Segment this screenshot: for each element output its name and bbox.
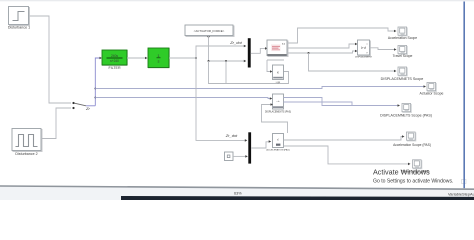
wire constant to mux2 [233,155,248,158]
scope DISPLACEMENTS Scope [381,67,424,81]
displacements pas block [265,94,291,114]
constant block [225,152,234,161]
scope DISPLACEMENTS Scope (PAS) [380,104,432,118]
wire mux2 to passive plant [251,140,271,148]
watermark Activate Windows [373,167,466,184]
svg-text:Travel Scope (PAS): Travel Scope (PAS) [401,170,430,174]
manual switch [72,102,95,111]
svg-text:DISPLACEMENT: DISPLACEMENT [355,56,373,59]
top window edge line [0,0,474,1]
mux2 (vertical bar) [248,132,251,163]
displacements pas block outputs [284,98,401,107]
status bar [0,185,474,200]
controller block below plant [273,65,284,84]
svg-text:Zr: Zr [85,106,90,111]
svg-text:LQR: LQR [276,82,281,84]
window frame blue right edge [463,2,465,189]
passive plant block [266,134,289,152]
scope Actuator Scope [420,83,444,96]
displacements pas block input 2 path [262,103,288,133]
transfer fcn block FILTER [102,50,127,70]
plant output 2 to subtract in1 [287,43,358,48]
svg-text:Zr_dot: Zr_dot [225,133,238,138]
svg-text:<ACTUATOR_FORCE>: <ACTUATOR_FORCE> [194,29,225,33]
svg-text:Acceleration Scope: Acceleration Scope [388,36,417,40]
scope Acceleration Scope (PAS) [393,132,431,147]
wire tag down to mux1 input 2 [207,36,246,62]
svg-text:Go to Settings to activate Win: Go to Settings to activate Windows. [373,179,453,185]
wire from Disturbance 1 to switch [30,16,72,103]
svg-text:VariableStepAuto: VariableStepAuto [448,191,474,196]
mux1 (vertical bar) [248,38,251,67]
svg-text:−+: −+ [276,99,280,103]
scope Acceleration Scope [388,27,417,40]
svg-text:DISPLACEMENTS (PAS): DISPLACEMENTS (PAS) [265,111,291,114]
svg-text:ACCELERATION (PAS): ACCELERATION (PAS) [266,149,289,152]
goto tag ACTUATOR_FORCE [185,25,234,37]
source block Disturbance 2 [12,129,42,157]
svg-text:Disturbance 2: Disturbance 2 [15,152,37,156]
taskbar dark strip [121,196,474,200]
wire FILTER to integrator [127,57,148,60]
svg-text:FILTER: FILTER [108,66,121,70]
integrator block (green) [148,48,169,68]
svg-text:Acceleration Scope (PAS): Acceleration Scope (PAS) [393,143,431,147]
svg-text:K: K [277,71,279,75]
passive plant output to acceleration scope pas [284,135,405,140]
svg-text:[x-y]: [x-y] [361,46,367,50]
plant output 1 to acceleration scope [287,28,397,43]
svg-text:63%: 63% [234,192,242,196]
svg-text:DISPLACEMNETS Scope (PAS): DISPLACEMNETS Scope (PAS) [380,113,432,117]
wire switch output up to FILTER [95,57,102,106]
wires around controller [267,60,284,73]
wire subtract to travel scope [370,48,397,51]
svg-text:DISPLACEMNETS Scope: DISPLACEMNETS Scope [381,77,424,81]
svg-text:s+240: s+240 [110,59,119,63]
long wire LB to displacements pas block [94,97,272,100]
svg-text:s: s [158,59,160,64]
svg-text:Zr_dot: Zr_dot [229,40,242,45]
wire junction down to mux2 with Zr_dot label [196,58,247,142]
wire integrator output to junction [169,57,197,59]
scope Travel Scope (PAS) [401,160,430,174]
source block Disturbance 1 [8,7,30,30]
wire from Disturbance 2 to switch [41,108,71,139]
wire junction up to mux1 with Zr_dot label [196,40,246,58]
feedback wires below mux1 [209,61,289,84]
long wire LA to actuator scope [94,85,426,89]
svg-text:Actuator Scope: Actuator Scope [420,92,444,96]
scope Travel Scope [393,46,413,59]
passive plant output to travel scope pas [284,146,411,165]
wire mux1 to plant [251,47,268,53]
subtract block (suspension travel) [355,40,373,59]
svg-text:Travel Scope: Travel Scope [393,54,413,58]
plant block (state-space, active suspension) [267,40,288,57]
plant output 3 to subtract in2 and displacements scope [287,50,397,73]
svg-text:Disturbance 1: Disturbance 1 [8,26,30,30]
